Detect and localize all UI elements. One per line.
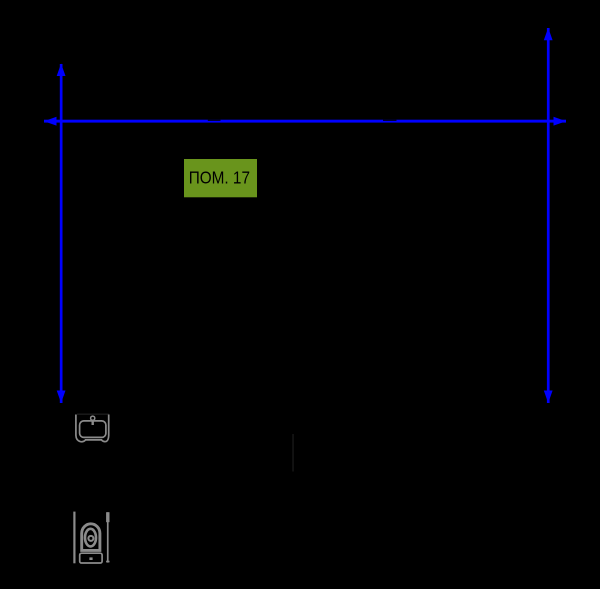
svg-text:ПОМ. 17: ПОМ. 17 [189,167,250,187]
